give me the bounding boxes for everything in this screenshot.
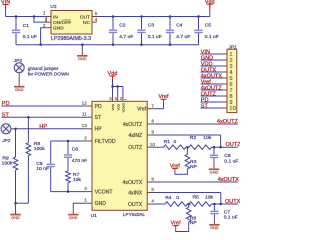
JP3 pin to ground xyxy=(18,73,20,87)
svg-text:7: 7 xyxy=(151,103,154,108)
JP1 pin 6 Vref xyxy=(201,80,233,89)
node C8 top junction xyxy=(67,140,69,142)
svg-text:4: 4 xyxy=(151,199,154,204)
wire OUTZ net label xyxy=(212,142,242,148)
ground under C7 xyxy=(209,219,219,230)
wire 4xINZ net xyxy=(153,135,222,148)
node R4-R5 junction xyxy=(188,203,191,205)
supply Vref right of U1 xyxy=(158,94,168,103)
U1 top pin stubs and numbers xyxy=(109,97,128,102)
net label PD xyxy=(2,101,87,107)
svg-text:Vref: Vref xyxy=(137,107,147,113)
svg-text:4xINX: 4xINX xyxy=(128,190,143,196)
U1 right pin stubs and numbers xyxy=(147,103,155,204)
U2 pin 2 GND stub xyxy=(43,23,51,28)
svg-text:4xINZ: 4xINZ xyxy=(129,133,143,139)
capacitor C5 xyxy=(194,15,218,44)
wire U1 GND pin to ground xyxy=(73,203,86,209)
svg-text:16: 16 xyxy=(109,97,113,101)
svg-text:2: 2 xyxy=(43,23,46,28)
svg-text:10 nF: 10 nF xyxy=(36,166,49,172)
svg-text:4.7 uF: 4.7 uF xyxy=(119,34,133,40)
svg-text:GND: GND xyxy=(11,215,20,220)
svg-text:10k: 10k xyxy=(73,177,82,183)
svg-text:5: 5 xyxy=(95,11,98,16)
wire to U2 ON/OFF pin 3 xyxy=(34,17,46,23)
svg-text:PD: PD xyxy=(95,104,102,110)
JP1 pin 4 OUTX xyxy=(201,68,233,77)
resistor R2 xyxy=(189,135,212,149)
svg-text:for POWER DOWN: for POWER DOWN xyxy=(28,71,70,77)
svg-text:JP2: JP2 xyxy=(1,138,10,143)
svg-text:GND: GND xyxy=(53,26,64,32)
node VIN-C1 junction xyxy=(15,15,17,17)
svg-text:NP: NP xyxy=(190,220,198,226)
wire U2 GND pin 2 to ground rail xyxy=(41,28,47,45)
svg-text:4xOUTZ: 4xOUTZ xyxy=(123,122,142,128)
svg-text:6: 6 xyxy=(151,177,154,182)
svg-text:OUTX: OUTX xyxy=(225,199,240,205)
jumper JP2 xyxy=(1,124,11,143)
supply Vdd above U1 xyxy=(108,71,118,80)
svg-text:FILTVDD: FILTVDD xyxy=(95,139,116,145)
text ground jumper note xyxy=(28,66,70,77)
JP1 pin 2 GND xyxy=(201,56,233,65)
U1 left pin names xyxy=(95,104,116,207)
svg-text:IN: IN xyxy=(53,14,58,20)
svg-text:LP2980AIM5-3.3: LP2980AIM5-3.3 xyxy=(51,36,91,42)
svg-text:2: 2 xyxy=(84,135,87,140)
ground under U1 GND xyxy=(68,210,78,221)
wire Vref to R6 xyxy=(176,225,189,231)
JP1 pin 3 VDD xyxy=(201,62,233,71)
svg-text:10k: 10k xyxy=(205,195,214,201)
U2 pin 5 OUT stub xyxy=(92,11,98,16)
svg-text:13: 13 xyxy=(82,123,88,128)
svg-text:0.1 uF: 0.1 uF xyxy=(205,34,219,40)
resistor R8 xyxy=(26,116,45,203)
wire 4xOUTZ net xyxy=(153,119,239,125)
svg-text:470 nF: 470 nF xyxy=(72,158,88,164)
wire Vref pin 7 xyxy=(153,103,164,109)
wire OUTX pin 4 xyxy=(153,203,166,205)
svg-text:0.1 uF: 0.1 uF xyxy=(224,158,238,164)
svg-text:GND: GND xyxy=(15,87,24,92)
JP1 pin 8 OUTZ xyxy=(201,92,233,101)
JP1 pin 9 PD xyxy=(201,98,233,107)
svg-text:4: 4 xyxy=(95,17,98,22)
svg-text:GND: GND xyxy=(210,170,219,175)
svg-text:OUT: OUT xyxy=(80,14,90,20)
U2 pin 3 ON/OFF stub xyxy=(45,18,51,23)
wire 4xOUTX net xyxy=(153,177,240,183)
svg-text:VDDIO: VDDIO xyxy=(122,102,126,112)
svg-text:14: 14 xyxy=(119,97,123,101)
capacitor C9 xyxy=(36,161,55,191)
svg-text:5: 5 xyxy=(151,187,154,192)
svg-text:8: 8 xyxy=(151,119,154,124)
svg-text:OUTZ: OUTZ xyxy=(128,145,142,151)
ground under JP3 xyxy=(14,87,24,92)
svg-text:R2: R2 xyxy=(190,135,197,141)
svg-text:0.1 uF: 0.1 uF xyxy=(148,34,162,40)
node GND-leg junction on ground rail xyxy=(40,44,42,46)
svg-text:LPY5x0AL: LPY5x0AL xyxy=(123,212,146,217)
wire VIN rail xyxy=(6,7,47,17)
svg-text:C1: C1 xyxy=(23,23,30,29)
svg-text:GND: GND xyxy=(69,215,78,220)
capacitor C8 xyxy=(64,141,87,171)
svg-text:10: 10 xyxy=(150,142,156,147)
U2 pin 1 IN stub xyxy=(43,11,51,17)
resistor R9 xyxy=(2,129,18,203)
wire OUTZ pin 10 xyxy=(153,146,164,148)
capacitor C3 xyxy=(137,15,161,45)
svg-text:11: 11 xyxy=(82,112,87,117)
svg-text:4.7 uF: 4.7 uF xyxy=(176,34,190,40)
svg-text:OUTZ: OUTZ xyxy=(226,142,241,148)
svg-text:ON/OFF: ON/OFF xyxy=(53,20,71,26)
capacitor C1 xyxy=(12,17,37,45)
regulator U2 LP2980 box xyxy=(50,4,92,42)
svg-text:HP: HP xyxy=(95,127,103,133)
resistor R5 xyxy=(189,195,214,207)
U1 right pin names xyxy=(123,107,147,208)
JP2 pin xyxy=(11,128,16,130)
svg-text:GND: GND xyxy=(95,201,107,207)
JP1 pin 7 4xOUTZ xyxy=(201,86,233,95)
wire R8-R9 ground rail xyxy=(14,202,28,204)
svg-text:4xOUTX: 4xOUTX xyxy=(218,177,240,183)
resistor R1 xyxy=(164,139,187,149)
svg-text:VCONT: VCONT xyxy=(95,190,113,196)
svg-text:R4: R4 xyxy=(165,195,172,201)
svg-text:ST: ST xyxy=(201,104,209,110)
svg-text:C4: C4 xyxy=(176,23,183,29)
svg-text:1: 1 xyxy=(43,11,46,16)
svg-text:10: 10 xyxy=(229,106,235,112)
U2 pin 4 NC stub xyxy=(92,17,98,22)
svg-text:C7: C7 xyxy=(224,209,231,215)
svg-text:0.1 uF: 0.1 uF xyxy=(23,34,37,40)
wire Vdd to U1 top pins xyxy=(111,80,123,97)
wire Vref to R3 xyxy=(175,172,188,174)
resistor R4 xyxy=(165,195,188,206)
net label ST xyxy=(2,112,87,118)
svg-text:VDD: VDD xyxy=(116,103,120,110)
svg-text:VDD: VDD xyxy=(111,103,115,110)
svg-text:3: 3 xyxy=(84,186,87,191)
svg-text:GND: GND xyxy=(78,56,87,61)
net label HP wire xyxy=(14,124,86,130)
svg-text:U2: U2 xyxy=(50,4,57,10)
supply Vref at R6 xyxy=(171,221,181,230)
IC U1 LPY5x0AL box xyxy=(91,101,148,219)
svg-text:OUTX: OUTX xyxy=(128,202,143,208)
svg-text:9: 9 xyxy=(151,130,154,135)
svg-text:1: 1 xyxy=(84,198,87,203)
JP1 pin 10 ST xyxy=(201,104,236,113)
capacitor C6 xyxy=(210,146,239,164)
ground under R9 xyxy=(10,203,20,220)
node ON/OFF branch junction xyxy=(33,15,35,17)
svg-text:3: 3 xyxy=(45,18,48,23)
svg-text:R1: R1 xyxy=(164,139,171,145)
svg-text:C6: C6 xyxy=(224,153,231,159)
jumper JP3 xyxy=(13,58,24,72)
capacitor C4 xyxy=(166,15,190,45)
capacitor C2 xyxy=(109,15,133,45)
wire 4xINX net xyxy=(153,193,222,206)
svg-text:100k: 100k xyxy=(2,161,13,167)
svg-text:C2: C2 xyxy=(119,23,126,29)
resistor R6 xyxy=(186,204,197,226)
capacitor C7 xyxy=(210,203,238,221)
supply Vdd top right xyxy=(205,0,215,12)
header JP1 box xyxy=(227,44,237,112)
svg-text:C3: C3 xyxy=(148,23,155,29)
svg-text:4xOUTX: 4xOUTX xyxy=(123,180,143,186)
svg-text:0: 0 xyxy=(174,139,177,145)
svg-text:U1: U1 xyxy=(91,213,98,219)
svg-text:C8: C8 xyxy=(72,146,79,152)
U1 top VDD pin names xyxy=(111,102,125,112)
svg-text:ground jumper: ground jumper xyxy=(28,66,59,72)
svg-text:0: 0 xyxy=(176,195,179,201)
svg-text:4xOUTZ: 4xOUTZ xyxy=(217,119,239,125)
svg-text:12: 12 xyxy=(82,100,88,105)
U1 left pin stubs and numbers xyxy=(82,100,92,203)
svg-text:R5: R5 xyxy=(193,195,200,201)
svg-text:JP3: JP3 xyxy=(13,58,22,63)
svg-text:10k: 10k xyxy=(203,135,212,141)
svg-text:100k: 100k xyxy=(34,146,45,152)
svg-text:0.1 uF: 0.1 uF xyxy=(224,214,238,220)
ground under C6 xyxy=(209,162,219,174)
wire Vdd rail xyxy=(97,12,210,17)
wire ground rail xyxy=(16,44,199,46)
svg-text:NC: NC xyxy=(83,20,90,26)
svg-text:1: 1 xyxy=(124,98,128,100)
JP1 pin 5 4xOUTX xyxy=(201,74,233,83)
svg-text:C5: C5 xyxy=(205,23,212,29)
svg-text:GND: GND xyxy=(210,225,219,230)
ground under U2 xyxy=(77,44,87,62)
svg-text:JP1: JP1 xyxy=(228,44,237,49)
wire VCONT net xyxy=(51,191,87,193)
svg-text:15: 15 xyxy=(114,97,118,101)
resistor R7 xyxy=(66,171,82,192)
supply VIN xyxy=(1,0,10,8)
resistor R3 xyxy=(185,147,197,172)
wire FILTVDD net xyxy=(51,141,87,163)
JP1 pin 1 VIN xyxy=(201,50,233,59)
node R1-R2 junction xyxy=(186,146,189,148)
wire OUTX net label xyxy=(212,199,241,205)
svg-text:ST: ST xyxy=(95,115,102,121)
svg-text:NP: NP xyxy=(190,164,198,170)
supply Vref at R3 xyxy=(170,163,180,172)
